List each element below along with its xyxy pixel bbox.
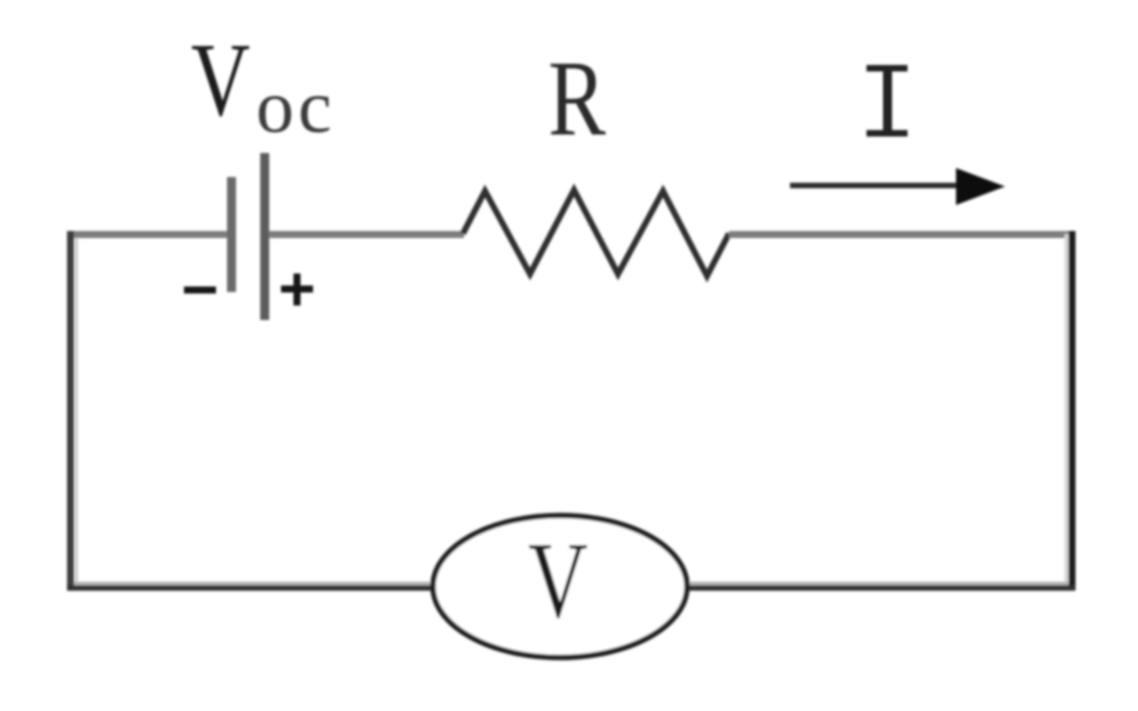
- wire resistor to top-right corner: [729, 231, 1075, 238]
- current arrow I shaft: [790, 183, 962, 189]
- wire left side: [75, 238, 78, 584]
- battery B1 negative plate (short bar): [227, 177, 236, 292]
- wire top-left segment: [67, 231, 229, 238]
- svg-text:oc: oc: [256, 65, 336, 149]
- battery B1 positive plate (tall bar): [260, 153, 269, 320]
- svg-text:V: V: [528, 520, 588, 640]
- battery plus sign: [281, 274, 313, 306]
- wire bottom-left segment: [74, 582, 433, 586]
- voltmeter V1 ellipse: [433, 516, 687, 658]
- resistor R zigzag: [463, 190, 729, 276]
- current arrow I head: [956, 168, 1005, 205]
- wire right side: [1065, 234, 1069, 588]
- wire bottom-right segment: [687, 582, 1068, 586]
- label I: [867, 65, 908, 137]
- wire battery to resistor: [269, 231, 464, 238]
- svg-text:R: R: [548, 40, 606, 159]
- svg-text:V: V: [191, 22, 250, 138]
- battery minus sign: [184, 287, 216, 294]
